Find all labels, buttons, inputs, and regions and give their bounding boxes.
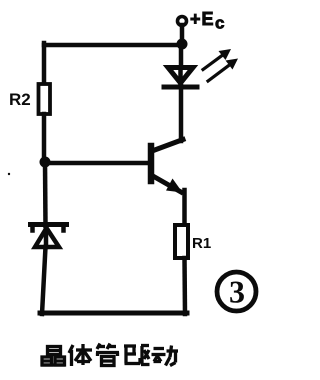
resistor R1 xyxy=(175,225,188,258)
ink speck (scan noise) xyxy=(8,173,10,175)
svg-text:R2: R2 xyxy=(9,90,31,109)
wire: R2 to base node xyxy=(42,114,47,163)
wire: terminal to top junction xyxy=(180,25,185,45)
svg-text:c: c xyxy=(215,14,224,33)
wire: bottom rail xyxy=(40,311,187,316)
svg-text:R1: R1 xyxy=(192,235,211,252)
node: base junction xyxy=(40,157,51,168)
caption char 晶 xyxy=(41,347,65,366)
wire: junction to LED anode xyxy=(179,44,184,66)
node: top-right junction xyxy=(177,39,188,50)
diode D1 xyxy=(31,225,67,248)
wire: base node to diode D1 xyxy=(43,162,48,226)
wire: diode to bottom rail xyxy=(42,247,46,314)
wire: base wire to transistor xyxy=(45,161,150,166)
label +Ec xyxy=(190,9,224,33)
wire: LED cathode to collector xyxy=(179,86,184,141)
LED D2 triangle and cathode bar xyxy=(164,68,197,88)
svg-text:E: E xyxy=(202,9,214,29)
wire: emitter to R1 xyxy=(182,190,187,226)
resistor R2 xyxy=(39,84,51,114)
caption char 体 xyxy=(69,344,92,366)
wire: left vertical to R2 xyxy=(42,43,47,86)
terminal +Ec xyxy=(178,17,187,26)
wire: top rail xyxy=(44,43,183,48)
figure number 3 in circle xyxy=(217,272,256,311)
caption: 晶体管驱动 (drawn strokes) xyxy=(41,344,178,367)
caption char 管 xyxy=(96,344,119,366)
wire: R1 to bottom rail xyxy=(182,258,187,314)
caption char 动 xyxy=(152,346,179,366)
transistor Q1 xyxy=(151,140,183,193)
light emission arrows xyxy=(203,49,238,81)
svg-text:+: + xyxy=(190,9,201,29)
caption char 驱 xyxy=(124,346,150,365)
svg-text:3: 3 xyxy=(229,274,245,310)
